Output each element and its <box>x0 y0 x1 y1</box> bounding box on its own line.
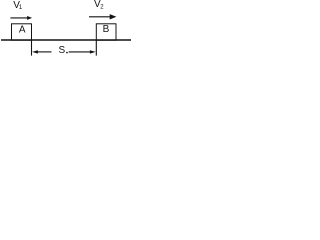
svg-text:B: B <box>103 24 110 35</box>
dimension arrow pointing left <box>32 50 51 53</box>
block A <box>12 24 32 40</box>
dimension arrow pointing right <box>69 50 96 53</box>
velocity arrow V2 over block B <box>89 14 116 19</box>
svg-text:S: S <box>59 45 66 56</box>
label V1 <box>13 0 23 11</box>
velocity arrow V1 over block A <box>10 16 32 20</box>
svg-text:2: 2 <box>100 5 104 11</box>
block B <box>96 24 116 40</box>
label V2 <box>94 0 104 10</box>
dimension label S. <box>59 45 68 56</box>
right dimension tick below block B left edge <box>95 40 97 56</box>
left dimension tick below block A right edge <box>31 40 33 56</box>
ground line <box>1 39 131 41</box>
svg-text:1: 1 <box>19 5 23 11</box>
svg-text:A: A <box>19 25 26 36</box>
